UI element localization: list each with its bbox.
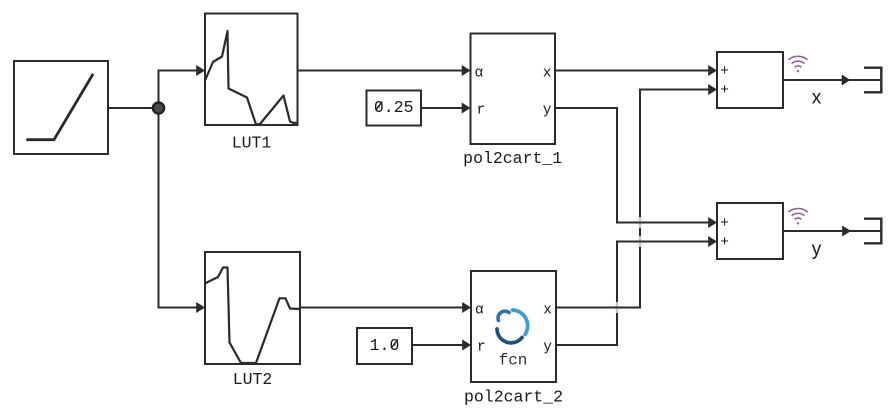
block pol2cart_1: [471, 34, 556, 145]
svg-text:fcn: fcn: [499, 352, 528, 370]
wire pol2cart_1 y to sum2 in1: [555, 108, 714, 223]
svg-text:x: x: [812, 87, 822, 108]
svg-text:+: +: [720, 64, 729, 80]
svg-text:x: x: [543, 66, 552, 82]
wifi icon sum2: [788, 208, 807, 224]
svg-text:y: y: [812, 239, 822, 260]
block sum2: [717, 203, 783, 259]
svg-text:+: +: [720, 83, 729, 99]
icon swirl arc small: [498, 311, 509, 320]
wire LUT2 to pol2cart_2 alpha: [300, 307, 468, 309]
bridge ghost at 640,241.5: [639, 236, 642, 247]
bridge ghost at 640,222.5: [639, 217, 642, 228]
block LUT2: [205, 252, 300, 364]
svg-text:1.0: 1.0: [370, 336, 400, 355]
svg-text:LUT1: LUT1: [232, 134, 272, 153]
block sum1: [717, 52, 783, 108]
wire sum2 to outport y: [783, 230, 881, 232]
svg-text:y: y: [543, 103, 552, 119]
wire 1.0 to pol2cart_2 r: [412, 344, 468, 346]
wire LUT1 to pol2cart_1 alpha: [298, 70, 468, 72]
svg-text:r: r: [477, 340, 486, 356]
wire 0.25 to pol2cart_1 r: [421, 107, 467, 109]
wire sat output to junction: [108, 107, 159, 109]
svg-text:+: +: [720, 216, 729, 232]
outport x bracket: [864, 68, 881, 93]
junction dot: [153, 102, 164, 113]
wire junction up and to LUT1: [159, 71, 202, 109]
bridge ghost at 617,307.5: [616, 302, 619, 313]
wire pol2cart_2 y to sum2 in2: [556, 313, 617, 345]
block LUT1: [205, 14, 298, 126]
wire pol2cart_2 x to sum1 in2: [556, 247, 640, 308]
icon swirl arc right: [513, 310, 528, 335]
svg-text:α: α: [475, 303, 484, 319]
svg-text:pol2cart_1: pol2cart_1: [463, 149, 562, 168]
wifi icon sum1: [788, 56, 807, 72]
outport y bracket: [864, 219, 881, 244]
svg-text:y: y: [543, 340, 552, 356]
wire junction down and to LUT2: [159, 108, 202, 308]
svg-text:0.25: 0.25: [374, 98, 414, 117]
icon swirl arc bottom: [497, 329, 522, 343]
constant 0.25: [367, 91, 422, 126]
constant 1.0: [357, 328, 412, 364]
svg-text:α: α: [475, 66, 484, 82]
block pol2cart_2: [471, 271, 556, 382]
wire sum1 to outport x: [783, 79, 881, 81]
svg-text:LUT2: LUT2: [233, 370, 273, 389]
svg-text:r: r: [477, 103, 486, 119]
block saturation source: [14, 61, 108, 154]
svg-text:pol2cart_2: pol2cart_2: [464, 388, 563, 407]
svg-text:x: x: [543, 303, 552, 319]
wire pol2cart_1 x to sum1 in1: [555, 70, 714, 72]
svg-text:+: +: [720, 235, 729, 251]
